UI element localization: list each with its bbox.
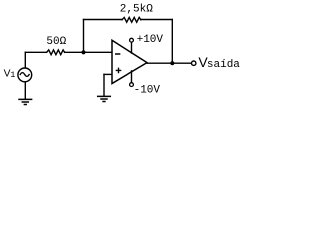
terminal: +10V open circle: [130, 38, 134, 42]
wire: input horizontal from V1 to R 50: [25, 51, 46, 53]
wire: feedback top left segment: [84, 19, 123, 21]
svg-text:saída: saída: [207, 59, 240, 71]
terminal: output open circle: [192, 61, 196, 65]
wire: V1 bottom to ground: [24, 82, 26, 99]
resistor 50Ω: [47, 50, 65, 55]
wire: -10V supply stub: [131, 71, 133, 83]
node: junction input/feedback: [81, 50, 85, 54]
svg-text:50Ω: 50Ω: [46, 36, 66, 48]
svg-text:-10V: -10V: [134, 85, 161, 97]
ground: op-amp non-inverting input: [98, 96, 111, 101]
wire: feedback right riser: [171, 20, 173, 64]
source V1 circle: [18, 68, 32, 82]
svg-text:+10V: +10V: [137, 34, 164, 46]
op-amp plus input symbol: [116, 68, 120, 72]
wire: +10V supply stub: [131, 42, 133, 53]
svg-text:2,5kΩ: 2,5kΩ: [120, 3, 153, 15]
wire: non-inverting input stub: [104, 73, 112, 75]
source V1 sine wave: [20, 73, 29, 77]
wire: output from op-amp tip: [147, 62, 191, 64]
resistor R feedback 2,5kΩ: [122, 17, 141, 22]
wire: V1 top vertical: [24, 52, 26, 67]
node: junction output/feedback: [170, 61, 174, 65]
svg-text:1: 1: [10, 71, 15, 80]
wire: resistor to op-amp inverting input: [65, 51, 112, 53]
op-amp U1 triangle: [112, 40, 147, 83]
wire: feedback left riser: [83, 20, 85, 53]
terminal: -10V open circle: [130, 83, 134, 87]
op-amp minus input symbol: [116, 53, 120, 55]
wire: feedback top right segment: [141, 19, 173, 21]
wire: non-inverting riser to ground: [103, 74, 105, 96]
ground: source V1: [19, 99, 32, 104]
